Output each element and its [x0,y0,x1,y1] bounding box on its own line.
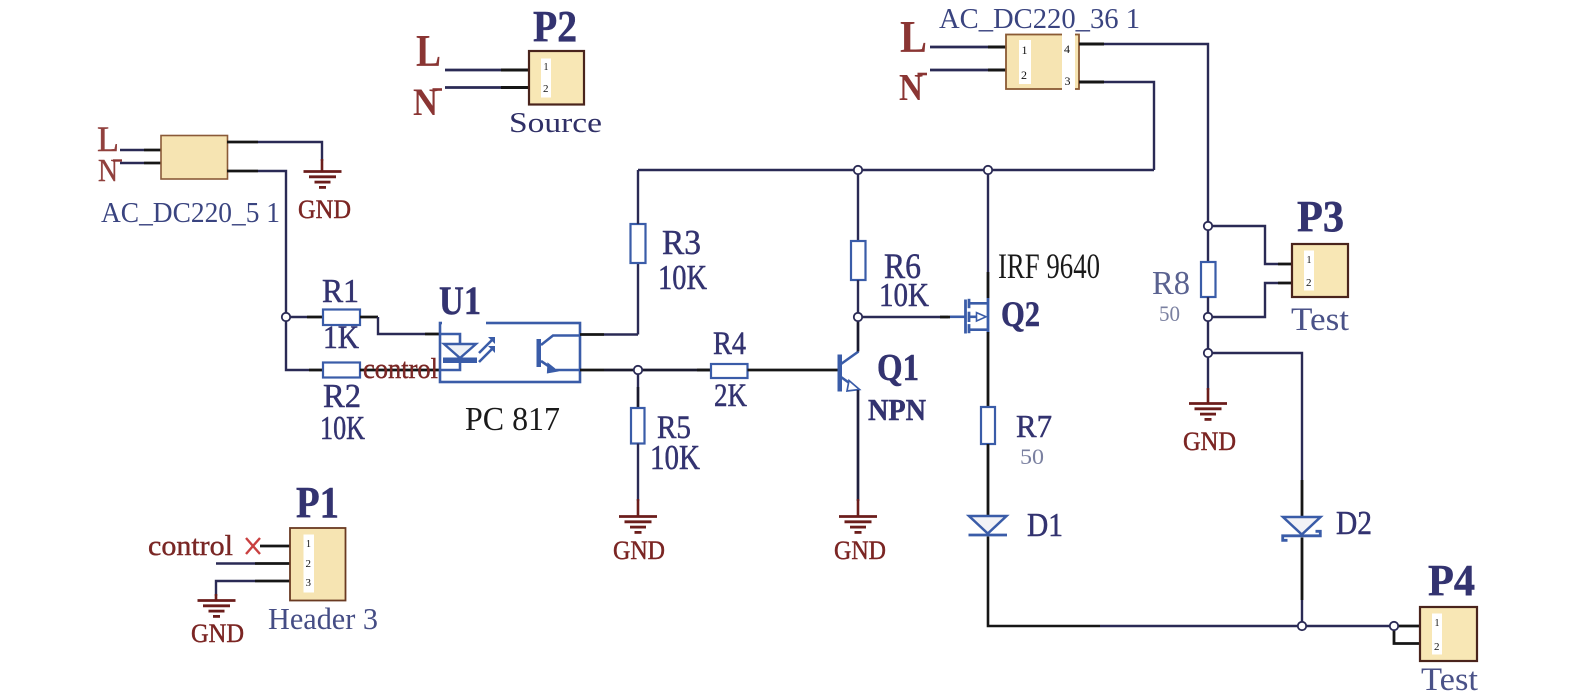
wire junction to D2 [1208,353,1302,480]
P1 pin-number strip [304,535,315,593]
D1 cathode bar [969,534,1008,537]
wire D1 to bottom bus [988,537,1100,627]
transistor Q1 base bar [838,355,843,392]
junction bottom bus / D2 [1298,622,1306,630]
pin of R1 (right) [360,316,378,319]
mosfet Q2 gate bar [964,300,967,334]
wire L to pin1 [930,46,988,49]
wire Q1 collector up to junction [857,317,860,352]
op-to body U1 box [440,323,580,382]
wire pin3 to bus [1104,82,1154,170]
svg-text:2: 2 [1306,277,1312,289]
Q2 middle stub [969,315,977,318]
ground GND (below R5) [619,499,657,532]
N overbar tick (AC_DC220_36) [918,73,928,76]
pin emitter of U1 [580,369,604,372]
wire U1 collector to R3 column [604,333,638,335]
pin 1 of AC_DC220_5 [144,149,162,152]
svg-text:1: 1 [1435,618,1440,629]
wire N to P2 pin2 [445,86,501,89]
svg-text:GND: GND [834,536,886,565]
wire junction to Q2 gate [862,316,948,318]
pin 4 of AC_DC220_5 (top right) [227,141,258,144]
Q2 gate lead [950,315,965,318]
svg-text:1: 1 [1022,43,1028,57]
U1 LED triangle [444,344,476,358]
svg-text:D2: D2 [1336,505,1372,542]
pin of R4 (left) [697,369,712,372]
resistor R3 [631,224,646,263]
wire D2 lower [1301,600,1303,626]
svg-text:10K: 10K [879,277,929,314]
wire R5 to GND [637,444,639,502]
junction at R5 top [634,366,642,374]
svg-text:R1: R1 [322,273,359,310]
wire pin4 to GND [258,142,322,161]
pin of R1 (left) [307,316,323,319]
svg-text:PC 817: PC 817 [465,401,560,438]
svg-text:N: N [98,152,118,188]
Q2 channel bar segment bottom [968,324,971,333]
P3 pin-number strip [1304,251,1314,291]
svg-text:P2: P2 [533,2,577,51]
pin 2 of P2 [501,86,530,89]
Q1 collector stroke [841,352,859,365]
junction P4 [1390,622,1398,630]
svg-text:R7: R7 [1016,408,1052,444]
U1 emitter arrowhead [548,364,558,373]
resistor R1 [323,310,360,326]
pin 2 of AC_DC220_36 [988,69,1007,72]
pin 3 of AC_DC220_5 (bottom right) [227,170,258,173]
wire junction to P3 pin1 [1208,226,1278,264]
wire bus to R6 [857,170,859,241]
svg-text:10K: 10K [650,438,700,477]
ground GND (below Q1) [839,499,877,532]
no-connect X [246,538,260,554]
junction bus/R6 [854,166,862,174]
U1 light arrow 2 [479,349,492,362]
svg-text:R4: R4 [713,326,746,362]
wire N to pin2 [930,69,988,72]
wire bottom bus [1100,625,1394,627]
svg-text:Header 3: Header 3 [268,601,378,636]
svg-text:P4: P4 [1428,556,1475,605]
pin 2 of P3 [1278,282,1293,285]
resistor R8 [1201,262,1216,297]
Q1 emitter arrowhead [847,381,860,392]
resistor R4 [711,364,748,378]
P2 pin-number strip [541,59,551,98]
svg-text:GND: GND [191,619,244,648]
P4 pin-number strip [1432,614,1442,655]
Q2 channel bar segment top [968,299,971,308]
wire R8 junction down [1207,317,1209,353]
wire R8 to junction [1207,297,1209,317]
svg-text:GND: GND [613,536,665,565]
svg-text:1K: 1K [323,320,359,356]
U1 phototransistor emitter [541,361,552,369]
svg-text:Source: Source [509,107,602,139]
N overbar tick [113,159,122,161]
svg-text:2: 2 [1434,641,1440,653]
pin 2 of AC_DC220_5 [144,162,162,165]
svg-text:Test: Test [1291,302,1349,338]
svg-text:1: 1 [544,62,549,73]
resistor R2 [323,363,360,378]
diode D2 triangle [1283,517,1321,535]
svg-text:AC_DC220_36 1: AC_DC220_36 1 [939,3,1140,35]
wire L to AC_DC220_5 pin1 [120,149,144,151]
wire pin3 down to R2 row [258,171,309,370]
pin 3 of AC_DC220_36 [1079,81,1104,84]
wire Q2 source to R7 [987,332,990,407]
resistor R7 [981,407,995,444]
resistor R6 [851,241,866,280]
wire pin4 to P3 column [1104,44,1208,226]
P3 connector body [1292,244,1348,297]
wire R4 to Q1 base [748,369,839,372]
junction R8 bottom [1204,313,1212,321]
svg-text:Q1: Q1 [877,347,919,389]
svg-text:GND: GND [298,195,351,224]
Q2 drain stub [969,302,989,305]
pin gate of Q2 [940,316,950,319]
wire U1 emitter to R4 [604,369,712,372]
wire bus to Q2 drain [987,170,989,272]
svg-text:IRF 9640: IRF 9640 [998,246,1100,286]
svg-text:2K: 2K [714,378,747,414]
pin 4 of AC_DC220_36 [1079,43,1104,46]
svg-text:L: L [900,11,927,62]
svg-text:P1: P1 [296,478,339,527]
junction R6/Q1/Q2-gate [854,313,862,321]
svg-text:Test: Test [1421,662,1478,698]
diode D1 triangle [969,516,1007,534]
pin 1 of P4 [1397,625,1421,628]
ground GND (P1) [198,594,236,616]
svg-text:control: control [363,354,438,385]
svg-text:P3: P3 [1297,192,1344,241]
svg-text:1: 1 [1307,255,1312,266]
wire R2-row junction branch to R1 [286,316,307,318]
svg-text:10K: 10K [320,410,365,447]
pin anode of U1 [425,333,440,336]
U1 phototransistor base bar [537,339,542,367]
AC_DC220_36 left pin strip [1019,40,1031,84]
U1 LED anode lead [440,334,460,344]
svg-text:AC_DC220_5 1: AC_DC220_5 1 [101,197,280,229]
AC/DC module body AC_DC220_36 [1006,35,1079,90]
wire N to AC_DC220_5 pin2 [120,162,144,164]
svg-text:50: 50 [1020,444,1044,469]
junction GND/D2 branch [1204,349,1212,357]
wire to P4 pin2 [1394,626,1421,644]
wire R6 to junction [857,280,859,317]
wire D2 to bottom bus [1301,538,1304,601]
svg-text:1: 1 [306,539,311,550]
pin 1 of P3 [1278,263,1293,266]
wire junction to R5 [637,370,639,387]
U1 LED cathode lead [440,363,460,370]
wire Q1 emitter down to GND [857,390,860,501]
Q2 channel right bar [987,298,990,333]
wire P1 pin2 stub [216,562,255,564]
AC_DC220_36 right pin strip [1062,33,1075,91]
U1 phototransistor collector [541,336,580,346]
pin 1 of P2 [501,69,530,72]
junction R8 top [1204,222,1212,230]
svg-text:NPN: NPN [868,392,926,427]
wire R2 to U1 cathode [360,369,440,372]
junction bus/Q2 drain [984,166,992,174]
wire junction to GND [1207,353,1209,390]
pin 3 of P1 [255,580,291,583]
wire P1 pin3 to GND [216,581,255,596]
pin collector of U1 [580,333,604,336]
svg-text:50: 50 [1159,301,1180,326]
U1 light arrow 1 [479,340,492,353]
P1 connector body [290,528,346,601]
svg-text:control: control [148,531,233,562]
svg-text:4: 4 [1064,42,1070,56]
wire R7 to D1 [987,444,990,516]
svg-text:D1: D1 [1027,507,1063,544]
Q2 source stub [969,328,989,331]
ground GND (below R8) [1189,388,1227,419]
pin 1 of AC_DC220_36 [988,46,1007,49]
U1 emitter lead [556,369,580,372]
svg-text:N: N [413,81,438,124]
resistor R5 [631,408,645,444]
svg-text:Q2: Q2 [1001,294,1040,334]
Q1 emitter stroke [841,377,850,384]
svg-text:2: 2 [306,558,312,570]
D2 anode lead [1301,480,1304,517]
svg-text:L: L [416,26,441,76]
wire R1 to U1 anode [378,317,425,334]
svg-text:R8: R8 [1152,265,1190,302]
svg-text:2: 2 [1021,68,1027,82]
N overbar tick (P2) [433,88,443,91]
junction at R1/R2 column [282,313,290,321]
svg-text:3: 3 [1065,74,1071,88]
svg-text:10K: 10K [658,258,707,297]
Q2 drain pin [987,272,990,298]
P4 connector body [1420,607,1477,661]
AC/DC module body AC_DC220_5 [161,136,228,180]
svg-text:3: 3 [306,577,312,589]
svg-text:2: 2 [543,83,549,95]
Q2 channel bar segment mid [968,312,971,322]
wire junction to R8 [1207,226,1209,262]
svg-text:GND: GND [1183,427,1236,456]
wire R3 column lower [637,263,639,335]
svg-text:R3: R3 [662,223,701,262]
pin 2 of P1 [255,562,291,565]
Q2 arrow [977,313,987,321]
U1 LED cathode bar [443,358,477,364]
ground GND (top-left) [304,159,342,187]
D2 zener cathode bar [1283,531,1321,540]
pin 1 of P1 [260,545,291,548]
pin of R2 (left) [309,369,323,372]
wire junction to P3 pin2 [1208,283,1278,317]
wire L to P2 pin1 [445,69,501,72]
wire R3 top to bus [637,170,639,224]
wire top supply bus [638,169,1154,171]
P2 connector body [529,51,584,105]
